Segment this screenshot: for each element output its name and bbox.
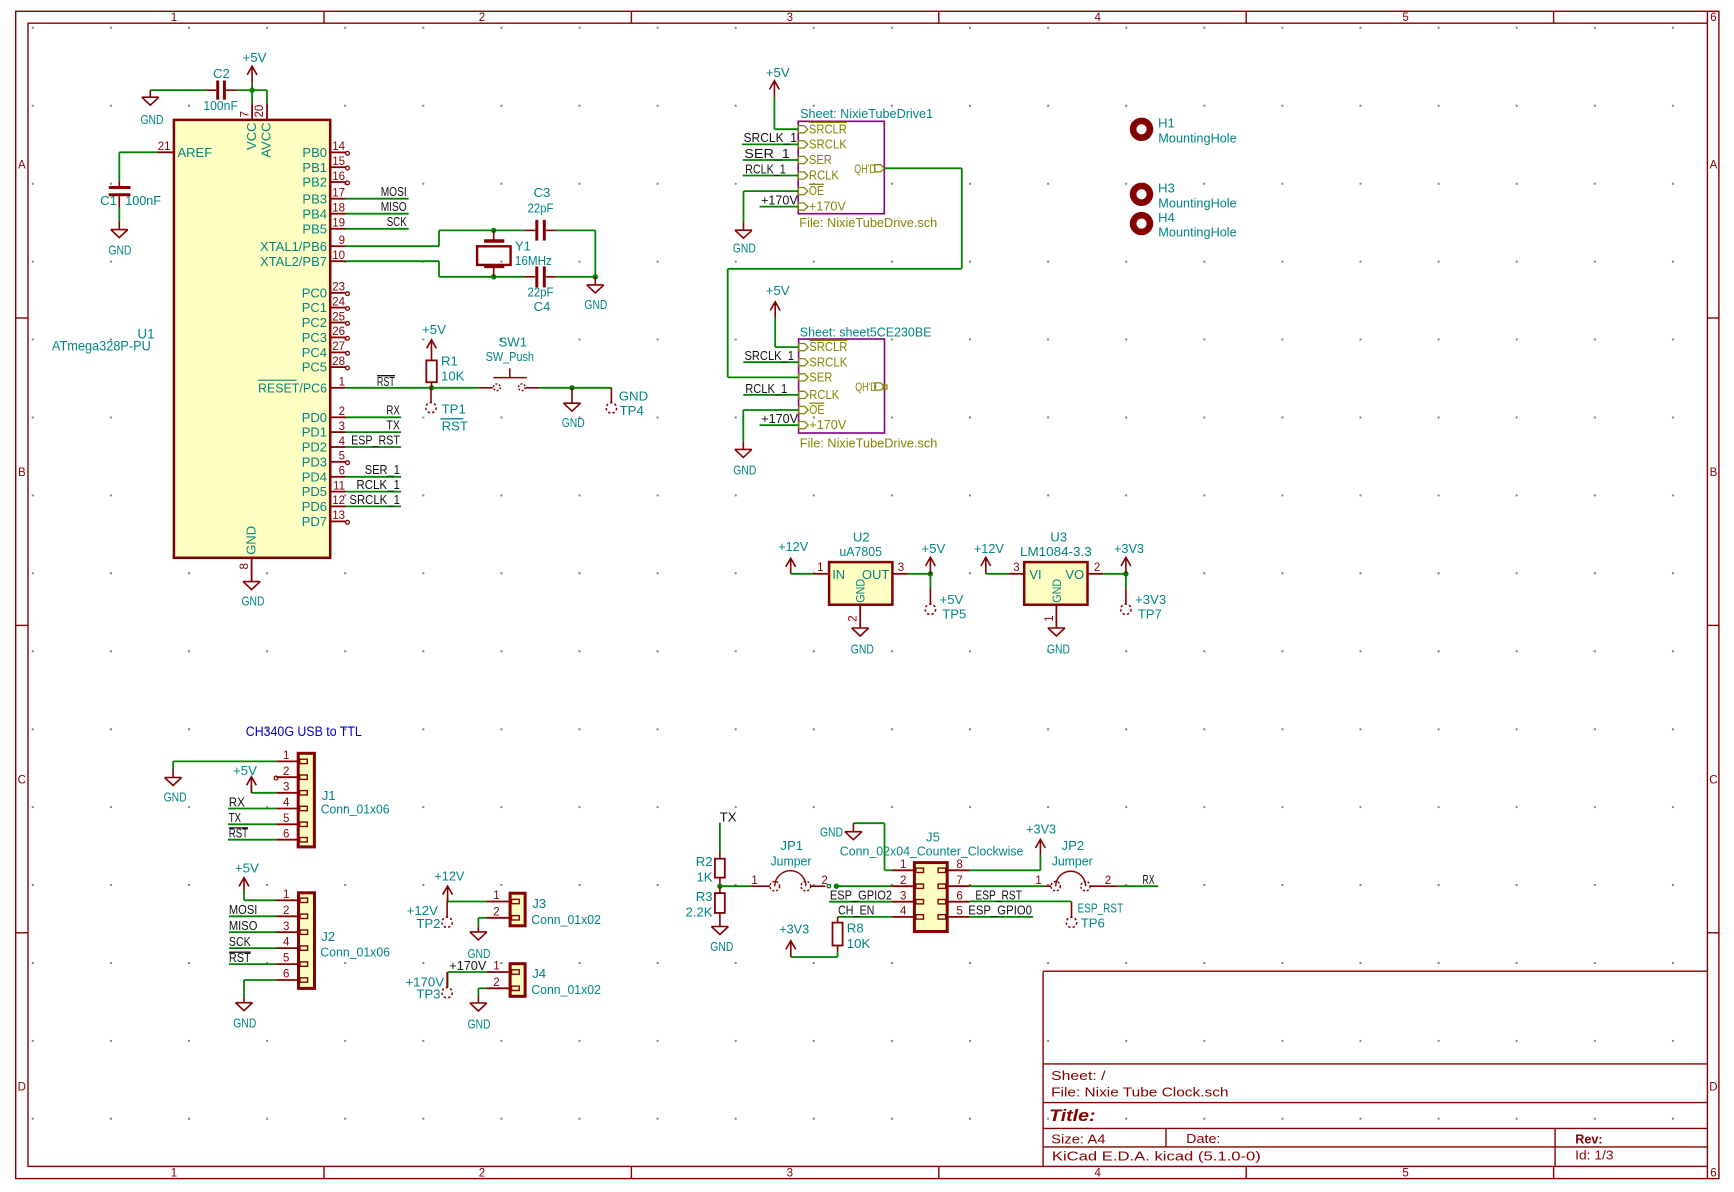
svg-text:RCLK_1: RCLK_1 (745, 381, 787, 396)
net label RST (377, 374, 395, 389)
wire OE sheet2 to GND (743, 410, 798, 442)
wire end square JP1 (827, 885, 830, 888)
svg-text:6: 6 (339, 466, 345, 478)
svg-text:6: 6 (956, 890, 962, 902)
ground below U3 (1047, 628, 1070, 657)
capacitor C3 (525, 185, 557, 240)
svg-text:24: 24 (332, 296, 345, 308)
svg-text:RESET/PC6: RESET/PC6 (258, 380, 327, 395)
svg-text:PB5: PB5 (302, 221, 327, 236)
svg-text:J2: J2 (321, 929, 335, 944)
svg-text:J5: J5 (926, 829, 940, 844)
svg-text:26: 26 (332, 326, 345, 338)
svg-text:SRCLR: SRCLR (809, 339, 847, 354)
junction U3 out (1123, 571, 1128, 576)
ground at J2 pin6 (233, 998, 256, 1031)
svg-text:+5V: +5V (422, 322, 446, 337)
power +12V at U3 input (974, 541, 1009, 574)
wire SER_1 (346, 476, 401, 478)
svg-text:CH340G USB to TTL: CH340G USB to TTL (246, 724, 362, 739)
svg-text:H4: H4 (1158, 210, 1175, 225)
jumper JP1 (751, 838, 828, 891)
connector J2 Conn_01x06 (277, 889, 391, 988)
test point TP6 (1066, 901, 1123, 931)
svg-text:GND: GND (733, 241, 756, 256)
svg-text:MISO: MISO (381, 199, 407, 214)
sheet1 pin SRCLR (798, 121, 847, 136)
svg-text:14: 14 (332, 141, 345, 153)
net label RST at J2 (229, 950, 251, 965)
svg-text:PD1: PD1 (302, 425, 327, 440)
svg-text:8: 8 (956, 859, 962, 871)
U1 pin 24 PC1 (302, 296, 350, 315)
test point TP7 (1121, 574, 1166, 622)
wire C3 to GND corner (557, 230, 596, 276)
svg-text:9: 9 (339, 235, 345, 247)
wire J5 pin1 to GND (853, 823, 892, 870)
svg-text:H3: H3 (1158, 181, 1175, 196)
junction at VCC (249, 88, 254, 93)
svg-text:RCLK: RCLK (809, 387, 839, 402)
svg-text:3: 3 (787, 1168, 793, 1180)
mounting hole H4 (1133, 210, 1237, 240)
svg-text:H1: H1 (1158, 116, 1175, 131)
svg-text:22pF: 22pF (528, 200, 554, 215)
U1 pin 10 XTAL2/PB7 (260, 250, 346, 269)
sheet1 pin SER (798, 152, 832, 167)
wire J2 MISO (229, 931, 277, 933)
svg-text:MountingHole: MountingHole (1158, 130, 1236, 145)
svg-text:RX: RX (229, 794, 245, 809)
sheet1 pin +170V (798, 199, 846, 214)
svg-text:1: 1 (1035, 875, 1041, 887)
net label RST at J1 (229, 826, 248, 841)
svg-text:6: 6 (1710, 1168, 1716, 1180)
svg-text:1: 1 (493, 890, 499, 902)
switch SW1 SW_Push (479, 334, 540, 390)
power +12V at U2 input (778, 539, 808, 574)
svg-text:A: A (18, 160, 26, 172)
svg-text:QH'D: QH'D (855, 380, 877, 394)
svg-text:TP4: TP4 (620, 403, 644, 418)
svg-text:C2: C2 (213, 66, 230, 81)
wire J1 RST (228, 839, 276, 841)
svg-text:Title:: Title: (1049, 1107, 1095, 1125)
svg-text:+5V: +5V (243, 50, 267, 65)
svg-text:2: 2 (900, 875, 906, 887)
power +3V3 below J5 (779, 921, 809, 957)
svg-text:GND: GND (733, 462, 756, 477)
wire J5 pin6 ESP_RST (970, 900, 1071, 902)
svg-text:1: 1 (171, 12, 177, 24)
U1 pin 6 PD4 (302, 466, 346, 485)
svg-text:OE: OE (809, 402, 824, 417)
svg-text:2: 2 (1105, 875, 1111, 887)
sheet2 pin SER (799, 370, 833, 385)
svg-text:PC2: PC2 (302, 315, 327, 330)
wire J2 RST (229, 963, 277, 965)
svg-text:4: 4 (1094, 1168, 1101, 1180)
svg-text:1: 1 (283, 889, 289, 901)
U1 pin 20 AVCC (254, 104, 274, 158)
U1 pin 28 PC5 (302, 356, 350, 375)
svg-text:4: 4 (283, 937, 290, 949)
svg-text:VI: VI (1029, 567, 1041, 582)
svg-text:RX: RX (386, 403, 400, 418)
svg-text:C3: C3 (534, 185, 551, 200)
svg-text:8: 8 (239, 563, 251, 569)
test point TP3 (405, 972, 452, 1002)
svg-text:AVCC: AVCC (259, 123, 274, 158)
wire +170V to sheet1 (760, 206, 799, 208)
wire C1 to GND (118, 208, 120, 222)
svg-text:19: 19 (332, 218, 345, 230)
power +5V at sheet2 (766, 283, 799, 347)
svg-text:RST: RST (442, 418, 468, 433)
svg-text:13: 13 (332, 510, 345, 522)
svg-text:PD4: PD4 (302, 469, 327, 484)
ground below U2 (851, 628, 874, 657)
svg-text:GND: GND (619, 389, 648, 404)
ground below sheet2 OE (733, 442, 756, 478)
wire SRCLK_1 to sheet1 (742, 143, 798, 145)
svg-text:4: 4 (339, 436, 346, 448)
svg-text:D: D (1709, 1082, 1717, 1094)
svg-text:1K: 1K (696, 870, 712, 885)
wire U2 OUT (908, 573, 930, 575)
svg-text:TP5: TP5 (942, 607, 966, 622)
svg-text:SCK: SCK (229, 934, 251, 949)
wire SRCLK_1 (346, 505, 401, 507)
wire RCLK_1 to sheet2 (743, 394, 798, 396)
svg-text:+3V3: +3V3 (1114, 541, 1144, 556)
svg-text:C1: C1 (100, 193, 117, 208)
svg-text:1: 1 (817, 562, 823, 574)
title block (1043, 971, 1707, 1166)
svg-text:11: 11 (333, 480, 345, 492)
wire J1 RX (228, 808, 276, 810)
svg-text:+3V3: +3V3 (1026, 822, 1056, 837)
svg-text:TP1: TP1 (442, 402, 466, 417)
svg-text:Sheet: NixieTubeDrive1: Sheet: NixieTubeDrive1 (800, 106, 933, 121)
svg-text:GND: GND (562, 415, 585, 430)
ground right of SW1 (562, 388, 585, 430)
svg-text:MountingHole: MountingHole (1158, 195, 1236, 210)
junction crystal top (491, 228, 496, 233)
svg-text:PC1: PC1 (302, 300, 327, 315)
svg-text:RCLK: RCLK (809, 168, 839, 183)
svg-text:GND: GND (108, 242, 131, 257)
svg-text:+5V: +5V (940, 592, 964, 607)
sheet2 pin QH'D unconnected (855, 380, 887, 394)
wire J3 pin1 to +12V (448, 897, 487, 902)
svg-text:6: 6 (283, 828, 289, 840)
wire junction to VCC pin (251, 90, 253, 104)
junction JP1 to J5 (834, 884, 839, 889)
svg-text:TX: TX (720, 809, 737, 824)
svg-text:2: 2 (283, 905, 289, 917)
U1 pin 4 PD2 (302, 436, 346, 455)
svg-text:Id: 1/3: Id: 1/3 (1575, 1148, 1613, 1163)
wire GND to C2 (150, 89, 206, 91)
svg-text:+12V: +12V (974, 541, 1004, 556)
svg-text:R8: R8 (847, 921, 864, 936)
svg-text:2: 2 (848, 615, 860, 621)
svg-text:1: 1 (283, 750, 289, 762)
svg-text:uA7805: uA7805 (839, 544, 882, 559)
wire AREF to C1 (119, 152, 157, 181)
svg-text:SRCLK_1: SRCLK_1 (744, 130, 798, 145)
wire J3 pin2 to GND (478, 918, 486, 926)
svg-text:Y1: Y1 (515, 238, 531, 253)
wire J5 pin8 to +3V3 (970, 855, 1041, 870)
wire J2 pin1 to +5V (244, 890, 277, 900)
svg-text:CH_EN: CH_EN (838, 903, 874, 918)
U1 pin 14 PB0 (302, 141, 349, 160)
svg-text:Date:: Date: (1186, 1131, 1220, 1146)
connector J3 Conn_01x02 (486, 890, 601, 927)
svg-text:GND: GND (468, 1016, 491, 1031)
svg-text:LM1084-3.3: LM1084-3.3 (1020, 544, 1092, 559)
svg-text:TP3: TP3 (416, 987, 440, 1002)
wire RESET to switch (346, 387, 479, 389)
svg-text:ESP_GPIO0: ESP_GPIO0 (968, 903, 1032, 918)
svg-text:10K: 10K (847, 936, 871, 951)
U1 pin 18 PB4 (302, 203, 345, 222)
connector J4 Conn_01x02 (486, 961, 601, 998)
svg-text:TX: TX (229, 810, 241, 825)
wire MOSI (346, 198, 409, 200)
wire XTAL1 to crystal top (346, 230, 525, 246)
svg-text:SRCLK_1: SRCLK_1 (745, 348, 794, 363)
wire QH'D sheet1 to sheet2 SER (728, 168, 962, 377)
svg-text:PD6: PD6 (302, 499, 327, 514)
svg-text:R1: R1 (441, 354, 458, 369)
U1 pin 17 PB3 (302, 188, 345, 207)
wire J4 pin2 to GND (478, 988, 486, 996)
svg-text:Conn_01x06: Conn_01x06 (321, 802, 390, 817)
svg-text:3: 3 (1013, 562, 1019, 574)
svg-text:QH'D: QH'D (854, 162, 876, 176)
svg-text:TP7: TP7 (1138, 607, 1162, 622)
svg-text:3: 3 (339, 421, 345, 433)
svg-text:PD2: PD2 (302, 440, 327, 455)
svg-text:2: 2 (283, 766, 289, 778)
sheet2 pin SRCLR (799, 339, 848, 354)
svg-text:PD5: PD5 (302, 484, 327, 499)
svg-text:PD0: PD0 (302, 410, 327, 425)
wire SRCLK_1 to sheet2 (743, 361, 798, 363)
svg-text:2: 2 (493, 977, 499, 989)
wire J2 SCK (229, 947, 277, 949)
ground below sheet1 OE (733, 223, 756, 256)
svg-text:+12V: +12V (778, 539, 808, 554)
wire J4 pin1 +170V (448, 971, 487, 973)
svg-text:Conn_01x06: Conn_01x06 (320, 944, 390, 959)
svg-text:12: 12 (332, 495, 345, 507)
U1 pin 16 PB2 (302, 171, 349, 190)
svg-text:Sheet: sheet5CE230BE: Sheet: sheet5CE230BE (800, 325, 932, 340)
wire R2 junction to JP1 (720, 885, 751, 887)
svg-text:TX: TX (386, 418, 400, 433)
wire J5 pin5 ESP_GPIO0 (970, 916, 1033, 918)
svg-text:SCK: SCK (387, 214, 407, 229)
svg-text:MountingHole: MountingHole (1158, 225, 1236, 240)
sheet2 pin RCLK (799, 387, 840, 402)
connector J1 Conn_01x06 (276, 750, 389, 847)
svg-text:1: 1 (493, 961, 499, 973)
capacitor C1 (100, 181, 161, 208)
power +5V above R1 (422, 322, 446, 361)
svg-text:GND: GND (710, 939, 733, 954)
net label RCLK_1 (745, 162, 786, 177)
svg-text:C: C (18, 774, 26, 786)
power +12V at J3 (434, 868, 464, 901)
net label SER_1 (744, 146, 790, 161)
wire RX (346, 416, 401, 418)
svg-text:5: 5 (339, 451, 345, 463)
svg-text:16MHz: 16MHz (515, 253, 552, 268)
resistor R2 (696, 852, 725, 886)
regulator U3 LM1084-3.3 (1009, 530, 1104, 628)
ground at J4 pin2 (468, 996, 491, 1031)
wire SER_1 to sheet1 (743, 159, 799, 161)
svg-text:Jumper: Jumper (1052, 853, 1094, 868)
svg-text:SW1: SW1 (499, 334, 528, 349)
U1 pin 2 PD0 (302, 406, 346, 425)
svg-text:20: 20 (254, 105, 266, 118)
svg-text:ESP_GPIO2: ESP_GPIO2 (830, 888, 892, 903)
svg-text:PB2: PB2 (302, 175, 327, 190)
test point TP5 (925, 574, 966, 622)
power +5V at sheet1 (766, 65, 798, 129)
ground above J5 (820, 823, 862, 840)
svg-text:+5V: +5V (921, 541, 945, 556)
wire J1 pin1 to GND (173, 761, 276, 769)
svg-text:B: B (1710, 467, 1718, 479)
wire MISO (346, 213, 409, 215)
svg-text:5: 5 (1402, 12, 1408, 24)
svg-text:MISO: MISO (229, 918, 258, 933)
test point TP4 (606, 388, 648, 418)
svg-text:Conn_01x02: Conn_01x02 (531, 912, 601, 927)
wire JP1 to J5 pin2 (836, 885, 892, 887)
svg-text:B: B (18, 467, 26, 479)
U1 pin 3 PD1 (302, 421, 346, 440)
ground at J1 pin1 (164, 770, 187, 805)
svg-text:ATmega328P-PU: ATmega328P-PU (52, 338, 151, 353)
wire SCK (346, 228, 409, 230)
svg-text:JP2: JP2 (1062, 838, 1085, 853)
svg-text:XTAL1/PB6: XTAL1/PB6 (260, 239, 327, 254)
net label SRCLK_1 sheet2 (745, 348, 794, 363)
svg-text:R3: R3 (696, 889, 713, 904)
svg-text:U2: U2 (853, 530, 870, 545)
svg-text:JP1: JP1 (780, 838, 803, 853)
svg-text:Conn_02x04_Counter_Clockwise: Conn_02x04_Counter_Clockwise (840, 843, 1024, 858)
svg-text:SER_1: SER_1 (365, 462, 400, 477)
wire J5 pin3 ESP_GPIO2 (829, 901, 892, 903)
svg-text:3: 3 (283, 921, 289, 933)
svg-text:2: 2 (339, 406, 345, 418)
svg-text:6: 6 (1710, 12, 1716, 24)
wire C2 to +5V junction (237, 89, 252, 91)
U1 pin 19 PB5 (302, 218, 345, 237)
svg-text:2: 2 (479, 12, 485, 24)
svg-text:VCC: VCC (244, 122, 259, 149)
svg-text:SRCLR: SRCLR (809, 121, 847, 136)
svg-text:+170V: +170V (761, 193, 798, 208)
svg-text:28: 28 (332, 356, 345, 368)
mounting hole H3 (1133, 181, 1237, 211)
svg-text:4: 4 (1094, 12, 1101, 24)
U1 pin 7 VCC (239, 104, 258, 150)
svg-text:U3: U3 (1050, 530, 1067, 545)
svg-text:2: 2 (1094, 562, 1100, 574)
svg-text:1: 1 (1044, 615, 1056, 621)
svg-text:+170V: +170V (809, 417, 846, 432)
U1 pin 25 PC2 (302, 311, 350, 330)
IC U1 ATmega328P-PU body (174, 120, 330, 558)
svg-text:PD7: PD7 (302, 514, 327, 529)
svg-text:ESP_RST: ESP_RST (351, 432, 400, 447)
wire C4 to GND (557, 276, 596, 278)
capacitor C2 (203, 66, 238, 113)
ground at J3 pin2 (468, 926, 491, 961)
svg-text:MOSI: MOSI (381, 184, 407, 199)
wire +170V to sheet2 (760, 424, 799, 426)
svg-text:OE: OE (809, 183, 824, 198)
svg-text:+170V: +170V (809, 199, 846, 214)
svg-text:3: 3 (900, 890, 906, 902)
hierarchical sheet sheet5CE230BE (799, 339, 885, 433)
svg-text:Size: A4: Size: A4 (1051, 1131, 1105, 1146)
wire switch to GND (540, 387, 612, 389)
ground below C1 (108, 222, 131, 258)
svg-text:SER_1: SER_1 (744, 146, 790, 161)
svg-text:100nF: 100nF (203, 98, 238, 113)
svg-text:17: 17 (332, 188, 345, 200)
svg-text:SER: SER (809, 370, 832, 385)
svg-text:7: 7 (956, 875, 962, 887)
wire XTAL2 to crystal bottom (346, 261, 525, 277)
power +3V3 at J5 pin8 (1026, 822, 1056, 855)
svg-text:2.2K: 2.2K (685, 904, 712, 919)
svg-text:J3: J3 (532, 896, 546, 911)
svg-text:3: 3 (898, 562, 904, 574)
svg-text:GND: GND (164, 790, 187, 805)
wire U3 VO (1103, 573, 1126, 575)
wire ESP_RST (346, 446, 401, 448)
power +5V at J1 pin3 (233, 763, 257, 793)
svg-text:File: Nixie Tube Clock.sch: File: Nixie Tube Clock.sch (1051, 1084, 1228, 1099)
wire J5 pin4 CH_EN (838, 916, 893, 918)
J1 pin2 no-connect circle (274, 776, 278, 780)
sheet1 pin QH'D (854, 162, 884, 176)
svg-text:+5V: +5V (766, 283, 790, 298)
svg-text:RX: RX (1143, 872, 1155, 887)
net label RCLK_1 sheet2 (745, 381, 787, 396)
sheet1 pin SRCLK (798, 137, 847, 152)
svg-text:C4: C4 (534, 299, 551, 314)
svg-text:File: NixieTubeDrive.sch: File: NixieTubeDrive.sch (800, 435, 938, 450)
svg-text:PD3: PD3 (302, 454, 327, 469)
svg-text:AREF: AREF (178, 145, 213, 160)
sheet1 pin OE (798, 183, 824, 198)
svg-text:R2: R2 (696, 854, 713, 869)
U1 pin 5 PD3 (302, 451, 350, 470)
svg-text:+5V: +5V (233, 763, 257, 778)
